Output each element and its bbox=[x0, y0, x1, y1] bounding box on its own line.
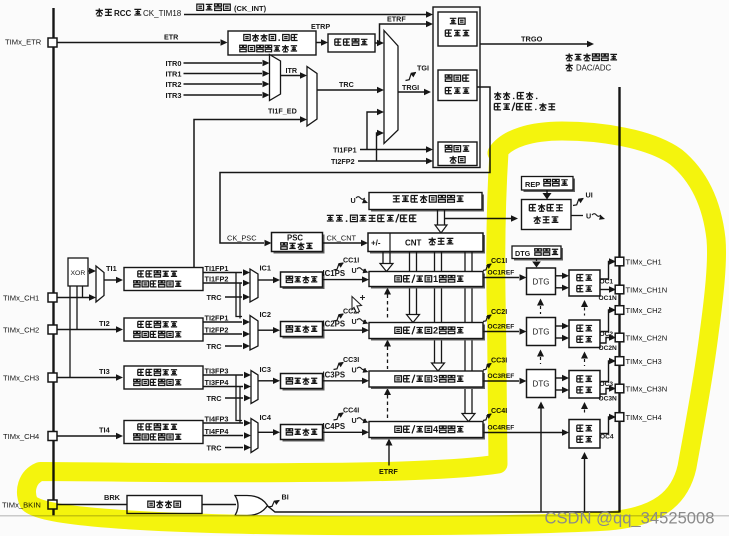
svg-text:UI: UI bbox=[586, 191, 593, 200]
block: prescaler ch2 bbox=[283, 324, 325, 339]
svg-text:TI1FP1: TI1FP1 bbox=[333, 146, 357, 155]
svg-text:CC1I: CC1I bbox=[343, 257, 359, 265]
block: output control 4 bbox=[569, 420, 600, 449]
svg-text:TI3FP4: TI3FP4 bbox=[205, 378, 230, 387]
svg-text:TI2FP1: TI2FP1 bbox=[205, 314, 229, 323]
svg-text:TIMx_CH3: TIMx_CH3 bbox=[626, 357, 662, 366]
block: XOR bbox=[68, 258, 88, 286]
wire bottom rail up into DTG3 bbox=[540, 405, 542, 512]
svg-text:TRC: TRC bbox=[207, 394, 223, 403]
svg-text:TGI: TGI bbox=[417, 64, 429, 73]
svg-text:RCC: RCC bbox=[114, 9, 132, 18]
svg-text:XOR: XOR bbox=[71, 270, 86, 277]
cross wires TI3FP3/TI3FP4 down to mux4 bbox=[236, 375, 242, 421]
pad TIMx_CH2N bbox=[615, 333, 624, 342]
svg-text:TRGO: TRGO bbox=[521, 35, 543, 44]
wire TI1FP1 branch to mux bbox=[367, 112, 377, 150]
wire OC1 to pad bbox=[600, 262, 609, 280]
wire OC1N to pad bbox=[600, 289, 609, 291]
block: input filter (top) bbox=[328, 34, 375, 52]
svg-text:ITR3: ITR3 bbox=[165, 91, 181, 100]
block: input filter & edge detector ch2 bbox=[124, 318, 203, 341]
svg-text:2: 2 bbox=[433, 325, 438, 335]
label: reset enable updown count bbox=[494, 92, 537, 99]
pad TIMx_CH3N bbox=[615, 384, 624, 393]
svg-text:TIMx_CH3N: TIMx_CH3N bbox=[626, 385, 668, 394]
label: stopped cleared or up/down bbox=[327, 214, 417, 223]
block: DTG1 bbox=[527, 268, 556, 295]
wire XOR out to TI1 mux bbox=[88, 270, 90, 272]
block: DTG2 bbox=[527, 318, 556, 346]
block: output control 1 bbox=[569, 270, 600, 296]
wire slave ctrl to prescaler clock path bbox=[220, 87, 490, 243]
wire CK_INT to trigger controller bbox=[184, 14, 426, 16]
svg-text:4: 4 bbox=[433, 424, 439, 434]
wire ETRF into TRGI mux bbox=[377, 40, 384, 46]
wire ETR bbox=[57, 42, 220, 44]
wire TRGO + label bbox=[480, 43, 587, 45]
block: PSC prescaler bbox=[274, 235, 325, 254]
svg-text:TRC: TRC bbox=[207, 443, 223, 452]
svg-text:TIMx_CH1: TIMx_CH1 bbox=[626, 258, 662, 267]
svg-text:TIMx_CH1N: TIMx_CH1N bbox=[626, 286, 668, 295]
mux: IC1 select bbox=[250, 269, 258, 302]
mux: TRC select bbox=[307, 67, 317, 127]
block: output control 2 bbox=[569, 320, 600, 348]
wire ARR to repetition counter bbox=[445, 218, 512, 220]
svg-text:TI2FP2: TI2FP2 bbox=[205, 326, 229, 335]
block: input filter & edge detector ch4 bbox=[124, 421, 203, 444]
hollow arrow CNT to capture1 bbox=[383, 252, 390, 264]
svg-text:U: U bbox=[586, 212, 591, 221]
svg-text:TIMx_CH2: TIMx_CH2 bbox=[626, 306, 662, 315]
svg-text:IC4PS: IC4PS bbox=[323, 422, 346, 431]
label: from RCC CK_TIM18 bbox=[96, 8, 112, 16]
svg-text:IC3PS: IC3PS bbox=[323, 370, 346, 379]
wire OC3N to pad bbox=[600, 389, 609, 395]
svg-text:TRGI: TRGI bbox=[402, 83, 419, 92]
svg-text:DAC/ADC: DAC/ADC bbox=[576, 64, 611, 73]
svg-text:DTG: DTG bbox=[533, 328, 550, 337]
svg-text:ITR: ITR bbox=[286, 66, 298, 75]
block: capture/compare 4 register bbox=[371, 424, 485, 440]
block: controller outer box bbox=[433, 7, 480, 168]
label U wavy right of repetition counter bbox=[571, 215, 583, 217]
block: capture/compare 3 register bbox=[371, 373, 485, 389]
svg-text:OC2N: OC2N bbox=[599, 345, 618, 352]
mux: IC4 select bbox=[251, 419, 258, 453]
wire TRC to TRGI mux bbox=[317, 89, 377, 91]
cross wires TI1FP1/TI1FP2 down to mux2 bbox=[236, 273, 242, 317]
pad TIMx_ETR bbox=[48, 38, 57, 47]
block: trigger controller bbox=[438, 12, 477, 46]
svg-text:TI3: TI3 bbox=[99, 367, 110, 376]
svg-text:ITR2: ITR2 bbox=[165, 80, 181, 89]
hollow arrow CNT to capture4 bbox=[465, 252, 472, 414]
wire channel 2 input bbox=[57, 329, 116, 331]
wire OC4 to pad bbox=[600, 417, 609, 434]
svg-text:TI1: TI1 bbox=[106, 264, 117, 273]
svg-text:TI1FP1: TI1FP1 bbox=[205, 264, 229, 273]
dashed ETRF chain up through capture boxes bbox=[384, 288, 391, 295]
mux: ITR select bbox=[270, 55, 281, 101]
mux: IC3 select bbox=[251, 371, 258, 404]
svg-text:CNT: CNT bbox=[405, 239, 422, 248]
block: REP register bbox=[524, 179, 576, 193]
svg-text:TIMx_ETR: TIMx_ETR bbox=[5, 38, 42, 47]
arrows DTG3 to output control bbox=[556, 377, 563, 379]
svg-text:ETRF: ETRF bbox=[387, 15, 406, 24]
arrow DTG register to DTG1 bbox=[536, 259, 538, 262]
svg-text:TIMx_CH1: TIMx_CH1 bbox=[3, 294, 39, 303]
svg-text:ETR: ETR bbox=[164, 33, 179, 42]
svg-text:TI3FP3: TI3FP3 bbox=[205, 367, 229, 376]
label: to other timers / to DAC ADC bbox=[566, 53, 617, 60]
block: capture/compare 2 register bbox=[371, 325, 485, 341]
svg-text:1: 1 bbox=[433, 274, 438, 284]
svg-text:TIMx_CH2: TIMx_CH2 bbox=[3, 326, 39, 335]
svg-text:OC1: OC1 bbox=[600, 279, 614, 286]
svg-text:TRC: TRC bbox=[207, 293, 223, 302]
svg-text:IC2: IC2 bbox=[260, 310, 272, 319]
svg-text:ITR1: ITR1 bbox=[165, 70, 181, 79]
wire TI2FP2 branch to mux bbox=[376, 133, 379, 161]
svg-text:IC1: IC1 bbox=[260, 264, 272, 273]
block: repetition counter bbox=[522, 200, 572, 230]
hollow arrow CNT to capture3 bbox=[435, 252, 442, 364]
svg-text:TIMx_CH4: TIMx_CH4 bbox=[3, 432, 39, 441]
block: encoder interface bbox=[438, 142, 477, 166]
block: input filter & edge detector ch3 bbox=[124, 366, 203, 389]
svg-text:CC3I: CC3I bbox=[343, 356, 359, 364]
wire BKIN + label BRK bbox=[57, 504, 127, 506]
svg-text:3: 3 bbox=[433, 374, 438, 384]
block: prescaler ch4 bbox=[283, 427, 325, 442]
hollow arrow ARR to CNT bbox=[438, 210, 445, 226]
pad TIMx_CH2 bbox=[615, 306, 624, 315]
svg-text:TIMx_CH4: TIMx_CH4 bbox=[626, 413, 662, 422]
wire bottom rail up into output control 4 bbox=[584, 456, 586, 512]
svg-text:OC1N: OC1N bbox=[599, 295, 618, 302]
svg-text:CK_TIM18: CK_TIM18 bbox=[143, 9, 182, 18]
mouse cursor bbox=[352, 295, 365, 313]
svg-text:ETRP: ETRP bbox=[311, 22, 330, 31]
grey page rule line bbox=[0, 515, 729, 517]
svg-text:CK_CNT: CK_CNT bbox=[327, 234, 357, 243]
block: polarity selection, edge detection & prescaler bbox=[228, 31, 316, 55]
dashed lines below DTG boxes bbox=[537, 299, 544, 306]
arrows DTG1 to output control bbox=[556, 275, 563, 277]
hollow arrow CNT to capture2 bbox=[410, 252, 417, 315]
dashed lines below output control boxes bbox=[581, 300, 588, 307]
wire TRGI + label bbox=[398, 91, 424, 93]
svg-text:TIMx_CH2N: TIMx_CH2N bbox=[626, 334, 668, 343]
svg-text:IC4: IC4 bbox=[260, 413, 272, 422]
pad TIMx_CH3 bbox=[615, 357, 624, 366]
svg-text:TI1FP2: TI1FP2 bbox=[205, 275, 229, 284]
arrow REP to repetition counter bbox=[546, 190, 548, 193]
svg-text:OC3N: OC3N bbox=[599, 396, 618, 403]
right bus wire bbox=[618, 87, 620, 513]
block: prescaler ch3 bbox=[283, 376, 325, 391]
svg-text:CSDN @qq_34525008: CSDN @qq_34525008 bbox=[545, 509, 715, 528]
mux: IC2 select bbox=[250, 316, 258, 351]
wire ETRF into capture4 bbox=[386, 439, 393, 446]
XOR input taps bbox=[69, 286, 71, 378]
svg-text:DTG: DTG bbox=[515, 249, 531, 258]
block: prescaler ch1 bbox=[283, 274, 325, 289]
yellow highlighter loop bbox=[26, 131, 716, 526]
arrows DTG2 to output control bbox=[556, 325, 563, 327]
wire OC2 to pad bbox=[600, 310, 609, 332]
block: input filter & edge detector ch1 bbox=[124, 268, 203, 291]
label: internal clock CK_INT bbox=[197, 4, 230, 11]
svg-text:CK_PSC: CK_PSC bbox=[227, 234, 257, 243]
svg-text:BI: BI bbox=[282, 493, 289, 502]
svg-text:ITR0: ITR0 bbox=[165, 59, 181, 68]
svg-text:OC4: OC4 bbox=[600, 434, 614, 441]
svg-text:TRC: TRC bbox=[339, 80, 354, 89]
svg-text:CC4I: CC4I bbox=[343, 407, 359, 415]
svg-text:+/-: +/- bbox=[371, 239, 381, 248]
mux: TI1 select bbox=[96, 266, 104, 302]
block: CNT counter bbox=[370, 235, 485, 254]
svg-text:(CK_INT): (CK_INT) bbox=[234, 4, 267, 13]
svg-text:TIMx_CH3: TIMx_CH3 bbox=[3, 374, 39, 383]
wire TI1 mux out bbox=[104, 279, 116, 281]
wire channel 3 input bbox=[57, 377, 116, 379]
left bus wire bbox=[52, 8, 54, 516]
pad TIMx_CH4 bbox=[615, 413, 624, 422]
svg-text:TI4FP4: TI4FP4 bbox=[205, 427, 230, 436]
svg-text:TI4FP3: TI4FP3 bbox=[205, 415, 229, 424]
wire ETRF to trigger controller bbox=[375, 42, 380, 44]
block: DTG register bbox=[514, 248, 563, 261]
svg-text:REP: REP bbox=[525, 180, 540, 189]
wire OC3 to pad bbox=[600, 361, 609, 382]
svg-text:IC3: IC3 bbox=[260, 365, 272, 374]
svg-text:DTG: DTG bbox=[533, 277, 550, 286]
block: output control 3 bbox=[569, 371, 600, 399]
mux: TRGI select (big) bbox=[384, 31, 398, 144]
wire to break gate bbox=[202, 504, 236, 506]
block: polarity selection (brk) bbox=[127, 496, 202, 514]
svg-text:TI1F_ED: TI1F_ED bbox=[268, 107, 297, 116]
wire bottom rail bbox=[267, 506, 620, 513]
pad TIMx_CH1 bbox=[615, 257, 624, 266]
block: capture/compare 1 register bbox=[371, 274, 485, 289]
svg-text:U: U bbox=[352, 318, 357, 326]
svg-text:U: U bbox=[352, 417, 357, 425]
pad TIMx_CH1N bbox=[615, 285, 624, 294]
wire channel 1 input bbox=[57, 297, 89, 299]
svg-text:U: U bbox=[352, 367, 357, 375]
svg-text:TI2: TI2 bbox=[99, 319, 110, 328]
svg-text:DTG: DTG bbox=[533, 380, 550, 389]
wire channel 4 input bbox=[57, 435, 116, 437]
block: auto-reload register bbox=[371, 195, 484, 212]
wire OC2N to pad bbox=[600, 338, 609, 344]
svg-text:TRC: TRC bbox=[207, 342, 223, 351]
block: DTG3 bbox=[527, 370, 556, 398]
svg-text:PSC: PSC bbox=[287, 234, 303, 243]
svg-text:U: U bbox=[351, 196, 356, 205]
block: slave mode controller bbox=[438, 70, 477, 101]
svg-text:BRK: BRK bbox=[104, 493, 121, 502]
svg-text:TI4: TI4 bbox=[99, 426, 111, 435]
svg-text:U: U bbox=[352, 267, 357, 275]
svg-text:TI2FP2: TI2FP2 bbox=[331, 157, 355, 166]
gate: break OR gate bbox=[235, 496, 268, 516]
